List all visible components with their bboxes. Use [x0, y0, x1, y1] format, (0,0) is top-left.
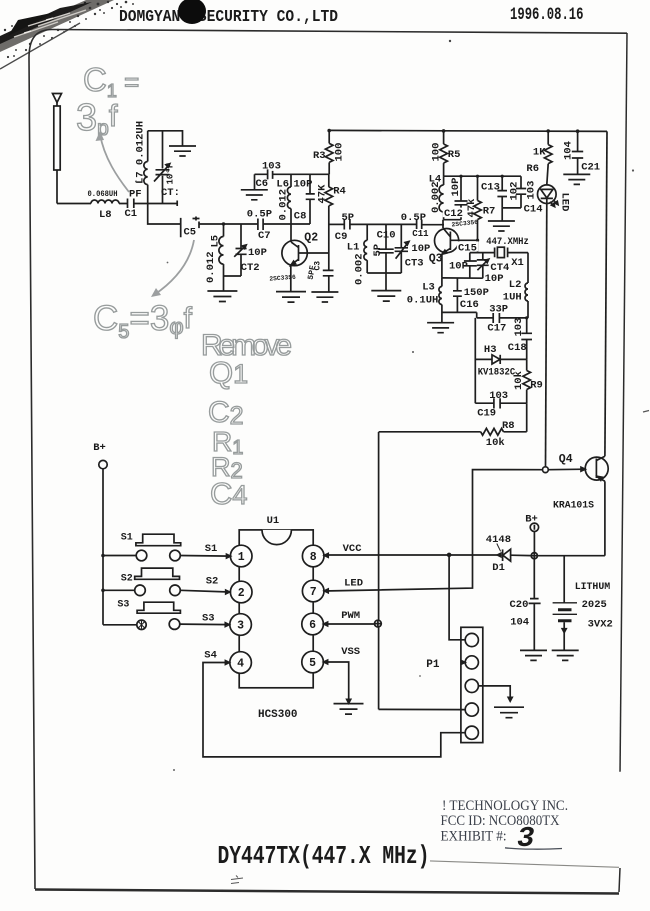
svg-text:H3: H3: [484, 344, 497, 356]
svg-text:3VX2: 3VX2: [588, 619, 613, 631]
switch S2 button cap: [135, 568, 180, 579]
svg-text:C2: C2: [208, 396, 244, 430]
switch S1 button cap: [136, 534, 181, 546]
svg-text:L2: L2: [509, 279, 522, 291]
ground (VSS): [334, 704, 364, 715]
wire C5 to L5 node: [199, 223, 224, 225]
svg-text:X1: X1: [511, 257, 524, 269]
svg-text:8: 8: [310, 551, 317, 564]
connector P1 body: [461, 627, 483, 742]
label C15 boxed: [457, 241, 479, 254]
P1 pin c3: [465, 679, 478, 692]
svg-text:47k: 47k: [466, 199, 478, 218]
PWM crossed node: [375, 620, 382, 627]
svg-text:0.002: 0.002: [354, 253, 366, 285]
handwritten arrow to C1: [96, 131, 130, 192]
small pen mark: [231, 876, 243, 884]
capacitor C7: [258, 219, 263, 231]
trimmer capacitor CT3: [395, 224, 409, 273]
ground (Q2 emitter): [276, 292, 306, 303]
capacitor C20: [529, 559, 541, 651]
page corner scan artifact: [0, 0, 134, 58]
svg-text:P1: P1: [426, 659, 440, 671]
P1 pin c4: [465, 703, 478, 716]
capacitor C12: [455, 175, 468, 220]
svg-text:33P: 33P: [489, 303, 508, 315]
svg-text:10P: 10P: [248, 247, 267, 259]
wire bus right segment: [329, 223, 345, 225]
capacitor C9: [344, 219, 350, 230]
wire C1 to L7/CT node: [134, 201, 177, 207]
svg-text:C10: C10: [377, 230, 396, 242]
svg-text:S1: S1: [121, 533, 133, 544]
svg-text:S3: S3: [117, 600, 129, 611]
diode D1: [497, 549, 531, 561]
svg-text:C8: C8: [294, 211, 307, 223]
svg-text:0.012: 0.012: [278, 189, 290, 221]
wire S2 to pin2: [180, 590, 229, 592]
svg-text:4: 4: [237, 658, 244, 671]
pin 8: [302, 545, 328, 567]
header ink blob: [178, 0, 206, 24]
svg-text:10°F: 10°F: [166, 163, 176, 185]
svg-text:150P: 150P: [464, 287, 489, 299]
svg-text:10P: 10P: [294, 179, 313, 191]
svg-text:103: 103: [262, 161, 281, 173]
wire line A (L3/C16 bottom): [442, 312, 477, 318]
svg-text:447.XMHz: 447.XMHz: [486, 236, 529, 248]
Q4 emitter wire down: [604, 481, 606, 555]
svg-text:0.1UH: 0.1UH: [407, 295, 439, 307]
transistor Q2: [282, 224, 307, 292]
pin 3: [225, 614, 251, 636]
svg-text:C16: C16: [460, 299, 479, 311]
svg-text:C13: C13: [481, 182, 500, 194]
switch S3 contacts: [103, 619, 180, 630]
svg-text:FCC ID: NCO8080TX: FCC ID: NCO8080TX: [441, 813, 560, 829]
wire L7 top to ground: [148, 131, 183, 146]
pin 1: [227, 545, 253, 567]
exhibit underline: [505, 848, 562, 849]
svg-text:CT2: CT2: [241, 262, 260, 274]
svg-text:C17: C17: [487, 323, 506, 335]
handwritten arrow to C5 note: [151, 240, 194, 297]
wire pin6 to PWM node: [324, 623, 375, 625]
IC U1 body: [239, 530, 313, 688]
label C12 boxed: [443, 208, 463, 220]
inductor L8: [91, 200, 119, 204]
svg-text:HCS300: HCS300: [258, 709, 298, 721]
wire L4/C12 bottom join: [443, 220, 461, 228]
ground (L7/CT tank): [169, 146, 196, 156]
svg-text:Q3: Q3: [429, 252, 443, 265]
ground (C6): [241, 190, 268, 200]
svg-text:102: 102: [509, 182, 521, 201]
svg-text:1K: 1K: [533, 146, 546, 158]
ground (C13/C14): [488, 221, 515, 231]
svg-text:C18: C18: [508, 342, 527, 354]
svg-text:! TECHNOLOGY INC.: ! TECHNOLOGY INC.: [442, 798, 568, 814]
top power rail: [329, 130, 607, 131]
svg-text:VCC: VCC: [343, 543, 363, 555]
capacitor C19: [494, 398, 500, 408]
svg-text:C19: C19: [477, 408, 496, 420]
svg-text:103: 103: [513, 318, 525, 337]
wire C6 to ground: [254, 174, 256, 189]
capacitor C21: [572, 129, 583, 174]
svg-text:L5: L5: [210, 235, 222, 248]
svg-text:10P: 10P: [485, 273, 504, 285]
svg-text:47K: 47K: [317, 184, 329, 204]
P1 pin c1: [465, 633, 478, 646]
capacitor C14: [516, 176, 526, 208]
svg-text:R6: R6: [526, 163, 539, 175]
svg-text:LITHUM: LITHUM: [575, 581, 611, 593]
capacitor 10P (xtal loop): [464, 253, 477, 279]
junction dot (VCC line / P1 drop): [447, 553, 452, 558]
svg-text:C15: C15: [458, 242, 477, 254]
varactor H3 wire: [475, 358, 526, 360]
wire C9 to Q3: [350, 223, 417, 225]
crystal X1: [495, 247, 528, 257]
node line R5/L4/C12/R7/C13/C14: [444, 175, 521, 177]
svg-text:6: 6: [309, 619, 316, 632]
svg-text:DY447TX(447.X MHz): DY447TX(447.X MHz): [218, 841, 430, 871]
svg-text:L7 0.012UH: L7 0.012UH: [135, 121, 147, 184]
svg-text:0.5P: 0.5P: [401, 212, 426, 224]
svg-text:0.002: 0.002: [430, 181, 442, 213]
svg-text:R3: R3: [313, 150, 326, 162]
ground (C21): [563, 174, 590, 184]
junction dots on B+ bus: [101, 554, 105, 558]
svg-text:KRA101S: KRA101S: [553, 500, 594, 512]
svg-text:Q1: Q1: [209, 355, 248, 390]
svg-text:DOMGYANG SECURITY CO.,LTD: DOMGYANG SECURITY CO.,LTD: [119, 8, 338, 27]
ground (L3): [427, 323, 454, 333]
trimmer capacitor CT4: [477, 253, 489, 279]
inductor L2: [525, 253, 528, 318]
P1 pin c2: [461, 656, 478, 669]
svg-text:CT3: CT3: [405, 258, 424, 270]
svg-text:C12: C12: [444, 208, 463, 220]
resistor R9: [523, 359, 531, 403]
ground (L1 tank): [371, 291, 401, 302]
wire antenna to L8: [57, 203, 91, 205]
svg-text:0.012: 0.012: [205, 251, 217, 283]
inductor L3: [439, 278, 442, 323]
svg-text:1: 1: [238, 551, 245, 564]
svg-text:C1: C1: [125, 208, 138, 220]
svg-text:CT4: CT4: [490, 262, 509, 274]
svg-text:PF: PF: [129, 189, 142, 201]
switch S1 contacts: [103, 550, 180, 561]
inductor L4: [439, 176, 444, 220]
pin 4: [225, 652, 251, 674]
svg-text:LED: LED: [559, 193, 571, 212]
svg-text:1996.08.16: 1996.08.16: [510, 5, 584, 25]
node A junction (bus/L5): [222, 222, 225, 225]
wire L5/CT2 bottom: [224, 276, 242, 291]
PWM vertical wire: [378, 432, 380, 709]
transistor Q3: [435, 228, 459, 278]
crystal loop top wire: [470, 252, 495, 254]
svg-text:10P: 10P: [449, 260, 468, 272]
inductor L7: [144, 131, 148, 204]
svg-text:3: 3: [237, 620, 244, 633]
svg-text:VSS: VSS: [341, 646, 360, 658]
svg-text:S1: S1: [205, 543, 218, 555]
antenna: [53, 94, 62, 204]
resistor R5: [440, 129, 448, 176]
svg-text:Q2: Q2: [304, 232, 318, 245]
Q3 collector wire: [450, 239, 477, 241]
junction R3/rail: [327, 129, 331, 133]
svg-text:3: 3: [517, 822, 534, 855]
svg-text:C21: C21: [581, 161, 600, 173]
svg-text:B+: B+: [93, 442, 106, 454]
pin 7: [302, 580, 328, 602]
svg-text:0.068UH: 0.068UH: [88, 190, 118, 199]
wire C11 to Q3 base node: [422, 224, 444, 226]
ground (L5 tank): [207, 291, 237, 302]
svg-text:5: 5: [309, 657, 316, 670]
FCC stamp label: [430, 769, 650, 867]
page edge diagonal line: [0, 23, 80, 69]
svg-text:100: 100: [334, 143, 346, 162]
wire pin5 to ground: [324, 662, 351, 703]
wire node to Q4 emitter: [537, 555, 605, 557]
capacitor C10: [378, 224, 393, 273]
switch S2 contacts: [103, 585, 180, 596]
inductor L1: [364, 224, 367, 273]
svg-text:C20: C20: [510, 599, 529, 611]
wire node down to C5: [148, 204, 181, 225]
node circle (Q4 base): [543, 467, 549, 473]
svg-text:S2: S2: [206, 576, 219, 588]
resistor R4: [325, 174, 333, 270]
B+ terminal (battery): [530, 523, 538, 553]
svg-text:R5: R5: [448, 149, 461, 161]
wire S3 to pin3: [180, 623, 229, 626]
switch S3 button cap: [137, 602, 180, 613]
capacitor C17: [493, 313, 499, 323]
node line C6/L6/C8/R3: [273, 173, 330, 175]
inductor L6: [287, 174, 291, 224]
capacitor C16: [453, 278, 462, 312]
capacitor C3: [323, 270, 334, 292]
wire line B (C17): [477, 317, 528, 319]
svg-text:R8: R8: [502, 420, 515, 432]
resistor R8: [379, 428, 527, 435]
svg-text:7: 7: [310, 586, 317, 599]
svg-text:103: 103: [526, 181, 538, 200]
trimmer capacitor CT2: [234, 224, 246, 276]
ground (C20): [520, 650, 547, 660]
svg-text:2: 2: [238, 587, 245, 600]
capacitor C13: [497, 175, 507, 208]
VCC/D1 wire: [325, 554, 497, 556]
capacitor C8: [306, 174, 315, 224]
wire bus to C7: [224, 223, 258, 225]
svg-text:U1: U1: [267, 515, 280, 527]
capacitor C1: [119, 199, 134, 209]
svg-text:C14: C14: [524, 204, 543, 216]
svg-text:5P: 5P: [342, 212, 355, 224]
svg-text:10k: 10k: [513, 371, 525, 390]
varactor diode H3: [492, 355, 500, 364]
svg-text:10P: 10P: [450, 178, 462, 197]
svg-text:L1: L1: [347, 242, 360, 254]
wire VCC drop to P1 pin1: [449, 555, 465, 640]
varactor block left wire: [474, 318, 476, 403]
wire S1 to pin1: [180, 555, 230, 558]
resistor R3: [325, 131, 333, 175]
pin 5: [302, 651, 328, 673]
svg-text:D1: D1: [492, 562, 505, 574]
wire L1/C10/CT3 bottom: [367, 273, 401, 291]
svg-text:L6: L6: [276, 179, 289, 191]
svg-text:103: 103: [489, 390, 508, 402]
svg-text:S3: S3: [202, 613, 215, 625]
trimmer capacitor CT: [154, 131, 170, 204]
svg-text:C4: C4: [210, 476, 247, 511]
battery BT1: [553, 556, 577, 651]
svg-text:L8: L8: [99, 209, 112, 221]
transistor Q4: [585, 456, 608, 481]
svg-text:C6: C6: [256, 178, 269, 190]
svg-text:4148: 4148: [486, 534, 511, 546]
svg-text:S4: S4: [204, 650, 217, 662]
LED long wire down to Q4 base node: [546, 204, 547, 467]
pin 2: [226, 581, 252, 603]
svg-text:EXHIBIT #:: EXHIBIT #:: [441, 829, 507, 845]
svg-text:0.5P: 0.5P: [247, 208, 272, 220]
node B+ crossed circle: [531, 553, 537, 559]
svg-text:Q4: Q4: [559, 453, 573, 466]
wire P1 c3 to ground: [478, 686, 512, 701]
capacitor C6: [255, 169, 273, 179]
resistor R6: [544, 129, 552, 185]
svg-text:KV1832C: KV1832C: [478, 366, 516, 378]
ground (C3): [311, 292, 338, 302]
pin 6: [302, 613, 328, 635]
svg-text:S2: S2: [121, 574, 133, 585]
wire C13/C14 bottom to ground: [502, 208, 521, 221]
svg-text:L3: L3: [422, 281, 435, 293]
svg-text:R9: R9: [530, 379, 543, 391]
speck dots: [449, 40, 451, 42]
svg-text:R7: R7: [483, 206, 496, 218]
Q3 emitter bottom wire: [442, 277, 483, 279]
svg-text:CT:: CT:: [161, 187, 180, 199]
svg-text:10k: 10k: [486, 437, 505, 449]
wire C19 line: [475, 402, 526, 404]
wire S4 to pin4: [203, 663, 465, 757]
wire PWM to P1 c4: [379, 708, 465, 710]
svg-text:2025: 2025: [582, 599, 607, 611]
resistor R7: [474, 175, 482, 253]
inductor L5: [219, 224, 224, 276]
capacitor C11: [417, 220, 422, 230]
capacitor C18: [521, 316, 532, 359]
B+ terminal (keypad): [99, 460, 107, 624]
svg-text:100: 100: [431, 143, 443, 162]
svg-text:C5: C5: [184, 227, 197, 239]
svg-text:PWM: PWM: [341, 610, 360, 622]
svg-text:5P: 5P: [372, 244, 384, 257]
junction Q3 collector/R7: [476, 239, 479, 242]
svg-text:R4: R4: [333, 186, 346, 198]
ground (P1): [494, 707, 524, 718]
ground (battery): [552, 650, 579, 660]
wire C7 to Q2 collector node: [263, 223, 310, 225]
capacitor C5: [181, 217, 200, 238]
svg-text:C11: C11: [412, 229, 429, 239]
label 4148: [486, 534, 511, 551]
svg-text:104: 104: [563, 141, 575, 160]
right power rail to Q4 collector: [605, 131, 607, 456]
svg-text:B+: B+: [525, 514, 538, 526]
P1 pin c5: [465, 726, 478, 739]
LED: [538, 185, 559, 207]
svg-text:104: 104: [510, 617, 529, 629]
wire pin7 to Q4 base node: [324, 470, 543, 591]
svg-text:LED: LED: [344, 577, 363, 589]
Q2 base wire: [299, 252, 329, 254]
wire R9 bottom to R8: [526, 403, 528, 432]
Q4 base wire with arrowhead: [548, 467, 585, 471]
svg-text:C7: C7: [258, 230, 271, 242]
svg-text:10P: 10P: [411, 243, 430, 255]
svg-text:1UH: 1UH: [503, 291, 522, 303]
svg-text:C9: C9: [335, 231, 348, 243]
